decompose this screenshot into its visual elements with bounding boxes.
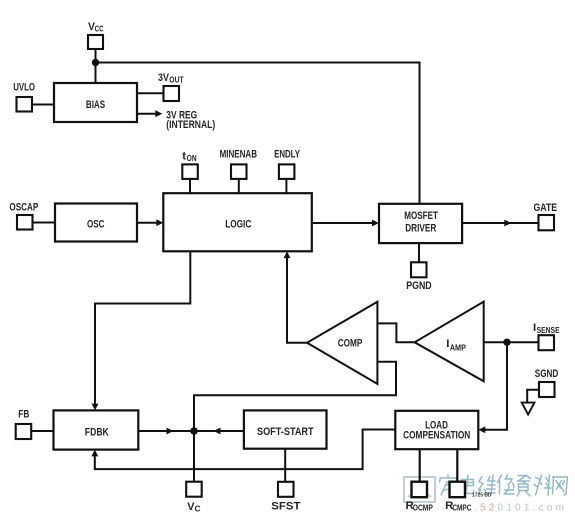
wire: OSC to LOGIC with arrow (137, 222, 158, 224)
pin UVLO (17, 97, 33, 112)
wire: ISENSE junction down to LOAD COMPENSATION with arrow (484, 342, 507, 430)
pin OSCAP (17, 215, 33, 230)
node: VC junction dot (190, 427, 198, 435)
wire: VCC junction across top and down to MOSFET DRIVER (96, 63, 420, 204)
watermark char 3 (wei) (479, 475, 496, 495)
wire: SGND pin to ground symbol (527, 390, 539, 403)
svg-text:GATE: GATE (534, 202, 558, 214)
block LOGIC (163, 193, 311, 251)
pin VCC (88, 35, 103, 49)
svg-text:FB: FB (18, 409, 29, 421)
pin GATE (539, 215, 555, 230)
svg-text:AMP: AMP (450, 344, 467, 353)
pin PGND (411, 262, 427, 277)
pin FB (16, 424, 32, 439)
svg-text:OSC: OSC (87, 219, 104, 231)
pin ROCMP (412, 482, 428, 498)
watermark char 7 (wang) (553, 477, 568, 495)
wire: ENDLY pin stub (285, 178, 287, 193)
wire: LOAD COMPENSATION output to FDBK bottom with arrow (95, 430, 396, 470)
block FDBK (54, 410, 139, 449)
svg-text:OCMP: OCMP (413, 504, 433, 513)
svg-text:ON: ON (187, 154, 197, 163)
wire: UVLO pin to BIAS (31, 104, 54, 106)
svg-text:SENSE: SENSE (537, 326, 560, 335)
wire: LOGIC to MOSFET DRIVER with arrow (312, 222, 373, 224)
watermark char 1 (jia) (440, 475, 458, 495)
block SOFT-START (244, 410, 327, 448)
svg-text:CC: CC (95, 25, 104, 34)
wire: tON pin stub (189, 178, 191, 193)
wire: BIAS to 3V REG internal arrow (137, 113, 157, 115)
svg-text:C: C (195, 504, 201, 513)
watermark char 5 (zi) (517, 476, 531, 497)
svg-text:MOSFET: MOSFET (404, 210, 438, 222)
wire: VCC pin to BIAS top (95, 49, 97, 83)
wire: MOSFET DRIVER to GATE pin with mid arrow (462, 222, 538, 224)
svg-text:MINENAB: MINENAB (220, 148, 257, 160)
block MOSFET DRIVER (379, 204, 462, 243)
wire: COMP output left and up into LOGIC bottom with arrow (287, 257, 308, 343)
wire: BIAS to 3VOUT pin (137, 92, 164, 94)
watermark char 4 (xiu) (498, 475, 515, 494)
svg-text:SFST: SFST (271, 501, 300, 513)
wire: OSCAP pin to OSC (32, 222, 57, 224)
svg-text:BIAS: BIAS (86, 99, 105, 111)
wire: SOFT-START to SFST pin (284, 449, 286, 482)
pin ISENSE (539, 335, 555, 350)
svg-text:COMPENSATION: COMPENSATION (403, 430, 470, 442)
wire: LOGIC bottom down-left into FDBK top with arrow (95, 251, 190, 405)
wire: VC node down to VC pin (193, 431, 195, 482)
pin SFST (278, 482, 294, 497)
pin tON (182, 164, 198, 179)
svg-text:OUT: OUT (169, 76, 183, 85)
svg-text:COMP: COMP (338, 337, 363, 349)
ground SGND symbol (522, 403, 535, 415)
watermark char 6 (liao) (534, 475, 551, 496)
svg-text:PGND: PGND (406, 280, 432, 292)
svg-text:1725 BD: 1725 BD (472, 493, 492, 499)
svg-text:OSCAP: OSCAP (9, 202, 38, 214)
op-amp COMP (307, 302, 377, 384)
node: VCC junction dot (92, 59, 99, 66)
pin VC (186, 482, 202, 497)
svg-text:3V: 3V (158, 72, 169, 84)
svg-text:SOFT-START: SOFT-START (257, 426, 314, 438)
wire: LOAD COMPENSATION to ROCMP pin (419, 449, 421, 482)
pin 3VOUT (164, 86, 180, 101)
op-amp IAMP (415, 302, 484, 382)
wire: MOSFET DRIVER to PGND pin (418, 243, 420, 263)
svg-text:t: t (182, 151, 186, 163)
watermark logo (open book icon) (404, 477, 435, 502)
pin MINENAB (231, 164, 247, 179)
svg-text:ENDLY: ENDLY (274, 148, 300, 160)
svg-text:UVLO: UVLO (13, 82, 35, 94)
wire: VC node up and right to COMP lower input (194, 362, 396, 431)
wire: IAMP output to COMP upper input (377, 323, 414, 342)
wire: LOAD COMPENSATION to RCMPC pin (456, 449, 458, 482)
node: ISENSE junction dot (503, 339, 510, 346)
wire: FB pin to FDBK (30, 430, 54, 432)
svg-text:DRIVER: DRIVER (405, 223, 436, 235)
svg-text:FDBK: FDBK (85, 427, 110, 439)
watermark char 2 (dian) (462, 475, 474, 494)
svg-text:SGND: SGND (535, 368, 559, 380)
wire: FDBK output to VC node with arrow, and SOFT-START output with arrow (138, 430, 244, 432)
pin ENDLY (279, 164, 295, 179)
svg-text:CMPC: CMPC (452, 504, 471, 513)
pin RCMPC (450, 482, 466, 498)
wire: MINENAB pin stub (238, 178, 240, 193)
pin SGND (539, 382, 555, 397)
wire: ISENSE pin to IAMP input (484, 341, 539, 343)
svg-text:(INTERNAL): (INTERNAL) (166, 119, 215, 131)
block OSC (55, 204, 137, 242)
svg-text:LOGIC: LOGIC (225, 219, 251, 231)
block BIAS (54, 83, 137, 122)
block LOAD COMPENSATION (395, 411, 478, 449)
